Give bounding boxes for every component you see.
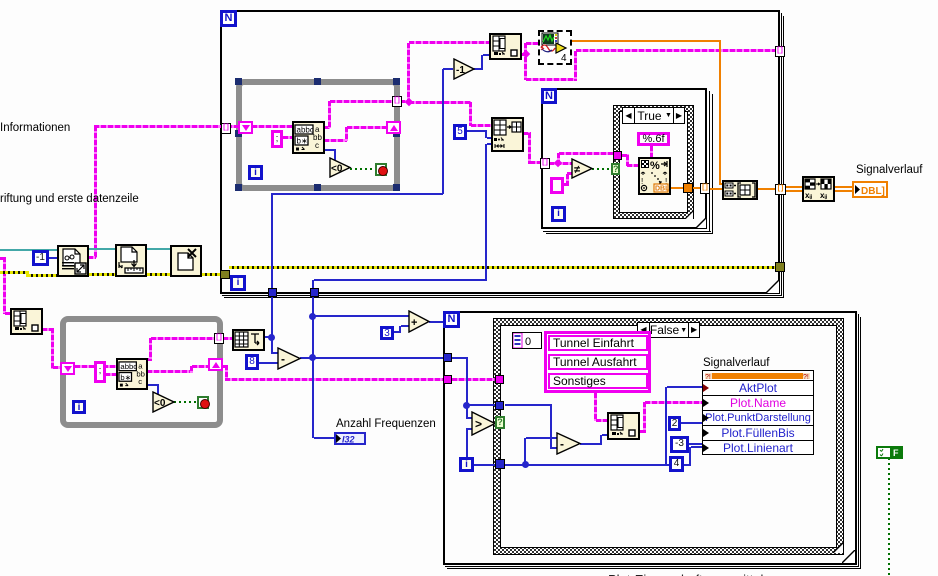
wire orange scan DBL out to tunnels xyxy=(670,187,683,189)
wire pink idx2 out up to property node Plot.Name xyxy=(639,430,646,433)
label Signalverlauf property node xyxy=(703,357,769,369)
wire green dotted neq to q xyxy=(592,168,612,170)
svg-text:<0: <0 xyxy=(331,164,343,175)
wire pink match1 a-out up to tunnel xyxy=(324,126,330,129)
wire pink match1 bb-out to SR1 up xyxy=(324,139,347,142)
wire blue match1 c-out to lt0 xyxy=(324,149,336,151)
svg-text:DBL]: DBL] xyxy=(861,186,885,196)
junction diamond pink xyxy=(405,98,413,106)
wire blue 4 to prop node xyxy=(683,464,691,466)
wire green dotted lt0#2 to stop2 xyxy=(174,401,197,403)
const 5 xyxy=(453,124,467,140)
tunnel blue main bottom 2 xyxy=(310,288,319,297)
icon index array bottom-left xyxy=(10,308,43,335)
wire error inside main loop xyxy=(229,266,775,269)
semicolon string const loop1 xyxy=(271,130,283,148)
svg-text:-: - xyxy=(281,352,285,366)
wire pink empty string const to neq xyxy=(563,183,569,186)
tunnel olive main loop right xyxy=(775,262,785,272)
for loop 3 (bottom) xyxy=(443,311,857,565)
wire pink case1 inside: magenta tunnel to scan xyxy=(622,154,629,157)
wire green dotted F const down xyxy=(888,458,890,576)
triangle minus 2 xyxy=(556,432,582,455)
tunnel [] main loop left xyxy=(221,123,231,134)
wire pink tunnel out, junction up to index icon and right to reshape xyxy=(400,100,410,103)
svg-text:+: + xyxy=(411,317,417,329)
case structure 2 (False) xyxy=(493,318,844,555)
triangle neq xyxy=(571,158,594,179)
wire pink from left edge down to index icon xyxy=(0,257,6,260)
wire blue long: array-size out, up through loop to -1 triangle xyxy=(264,336,272,338)
inner for loop (top) xyxy=(541,88,707,229)
wire pink reshape out down to inner loop tunnel xyxy=(523,132,531,135)
svg-text:4: 4 xyxy=(561,53,567,63)
triangle lt0 loop1 xyxy=(329,157,352,178)
icon file size xyxy=(115,244,147,277)
tunnel blue main bottom 1 xyxy=(268,288,277,297)
wire pink SR2 to match2 xyxy=(75,365,116,368)
i terminal loop3 xyxy=(459,457,474,472)
label clipped bottom xyxy=(608,571,808,576)
shift register up loop2 xyxy=(208,358,223,371)
tunnel olive main loop left xyxy=(220,270,230,279)
svg-text:%: % xyxy=(650,160,660,172)
tunnel [] inner loop left xyxy=(540,158,550,169)
const 8 xyxy=(245,354,259,370)
triangle gt loop3 xyxy=(471,411,497,436)
wire blue match2 c-out to lt0 #2 xyxy=(147,384,159,386)
label Anzahl Frequenzen xyxy=(336,418,436,430)
svg-text:-1: -1 xyxy=(456,65,465,76)
wire pink case2: array const to index icon xyxy=(594,393,597,421)
wire pink SR2up to loop3 tunnel (long dashed) xyxy=(222,365,228,368)
wire orange build array out xyxy=(757,188,775,190)
svg-text:xᵢⱼ: xᵢⱼ xyxy=(805,191,813,200)
q box case1 xyxy=(611,163,620,175)
tunnel magenta case1 left xyxy=(613,151,622,160)
svg-text:abbc: abbc xyxy=(120,362,137,371)
wire blue -1const to read icon xyxy=(49,257,57,259)
tunnel magenta loop3 left xyxy=(443,375,452,384)
tunnel [] while2 right xyxy=(214,333,224,344)
wire pink match2 bb-out to SR up xyxy=(147,370,192,373)
icon read spreadsheet file xyxy=(57,245,89,277)
const -1 xyxy=(32,250,49,266)
svg-text:-: - xyxy=(560,437,564,451)
wire blue case2 inside: tunnel to minus2 bottom xyxy=(505,404,552,406)
svg-text:<0: <0 xyxy=(154,398,166,409)
wire blue plus out to N3 xyxy=(429,321,443,323)
svg-text:>: > xyxy=(475,417,482,431)
semicolon string const loop2 xyxy=(94,361,106,383)
svg-text:≠: ≠ xyxy=(574,164,580,176)
icon array size T xyxy=(232,329,265,351)
wire orange double 2D to transpose xyxy=(785,186,802,188)
for-loop main frame xyxy=(220,10,780,294)
wire pink inside loop3 to case2 tunnel xyxy=(452,378,496,381)
tunnel blue loop3 left xyxy=(443,353,452,362)
N inner loop xyxy=(541,88,557,104)
stop sign loop1 xyxy=(375,163,387,176)
shift register down loop2 xyxy=(60,362,75,375)
wire blue loop3: tunnel to gt and case tunnel xyxy=(452,357,468,359)
svg-text:!: ! xyxy=(641,177,643,186)
const 2 xyxy=(668,416,681,431)
svg-text:b∗: b∗ xyxy=(297,137,308,146)
wire blue i4 row xyxy=(473,464,666,466)
I32 terminal xyxy=(334,432,366,445)
while loop 2 xyxy=(60,316,223,428)
tunnel magenta case2 left xyxy=(495,375,504,384)
svg-text:c: c xyxy=(138,377,142,386)
fmt string const xyxy=(637,132,670,146)
wire pink idxTop icon to chart icon and long run to right tunnel xyxy=(521,53,526,56)
wire pink match2 a-out to tunnel xyxy=(147,358,152,361)
svg-text:DBL: DBL xyxy=(655,186,669,193)
tunnel blue case2 left lower xyxy=(495,459,505,469)
N main loop xyxy=(220,10,237,27)
triangle -1 xyxy=(453,58,476,80)
icon waveform chart (dashed) xyxy=(538,30,572,65)
const -3 xyxy=(670,436,689,453)
N for loop 3 xyxy=(443,311,460,328)
wire pink inner loop tunnel to neq and magenta tunnel xyxy=(549,162,572,165)
tunnel blue case2 left upper xyxy=(495,401,504,410)
wire pink semicolon2 out xyxy=(105,373,116,376)
svg-text:xᵢⱼ: xᵢⱼ xyxy=(820,191,828,200)
wire pink fmt string down to scan xyxy=(650,146,653,157)
icon match pattern 1 xyxy=(292,121,325,154)
wire blue array-size down to minus xyxy=(271,340,273,353)
tunnel [] main loop right top xyxy=(775,46,785,57)
icon index array top xyxy=(489,33,522,60)
svg-text:I32: I32 xyxy=(342,435,355,444)
while loop 1 (selected, gray border with handles) xyxy=(236,79,400,191)
wire blue -3 to prop node xyxy=(688,443,703,445)
wire green dotted lt0 to stop1 xyxy=(350,168,375,170)
icon match pattern 2 xyxy=(116,358,148,390)
wire pink semicolon1 out xyxy=(283,136,292,139)
shift register up loop1 xyxy=(386,121,401,134)
triangle minus 1 xyxy=(277,347,302,370)
wire pink index icon to shift register loop2 xyxy=(42,328,54,331)
wire pink Informationen row into main loop and down to file icon xyxy=(94,125,238,128)
wire blue 2 to prop node xyxy=(680,422,702,424)
case structure 1 (True) xyxy=(613,105,694,219)
wire blue -1 triangle out to idxTop xyxy=(474,68,483,70)
svg-text:F: F xyxy=(893,448,899,457)
i terminal inner loop xyxy=(551,206,566,222)
case 2 selector label xyxy=(637,322,700,338)
string array const Tunnel xyxy=(544,331,651,393)
wire blue minus2 out to idx2 xyxy=(580,443,602,445)
tunnel [] main loop right orange xyxy=(775,184,786,195)
tunnel [] while1 top right xyxy=(392,96,402,107)
icon index array case2 xyxy=(607,412,640,440)
DBL indicator xyxy=(852,181,888,198)
i terminal loop1 xyxy=(248,165,263,180)
i terminal loop2 xyxy=(72,400,86,414)
icon reshape array xyxy=(491,117,524,152)
label Informationen xyxy=(0,122,70,134)
i terminal main loop xyxy=(230,275,246,291)
wire blue 8 to minus xyxy=(258,362,278,364)
ring const 0 xyxy=(512,332,542,349)
svg-text:b∗: b∗ xyxy=(120,373,131,382)
label Signalverlauf right xyxy=(856,164,922,176)
tunnel [] inner loop right orange xyxy=(700,183,710,194)
wire pink tunnel loop2 to array icon xyxy=(223,337,232,340)
wire blue 3 to plus xyxy=(393,331,401,333)
wire pink SR1 to match1 xyxy=(252,125,292,128)
triangle plus xyxy=(408,310,431,333)
wire teal refnum chain xyxy=(0,249,57,251)
wire blue 5 to reshape xyxy=(465,130,487,132)
empty string const case1 area xyxy=(550,177,564,194)
F boolean const xyxy=(876,446,903,459)
tunnel orange case1 right xyxy=(683,183,693,193)
svg-text:0: 0 xyxy=(525,336,531,348)
wire orange chart out long right and down to build array xyxy=(571,40,721,42)
shift register down loop1 xyxy=(238,121,253,134)
triangle lt0 loop2 xyxy=(152,391,176,413)
icon scan from string xyxy=(638,157,671,195)
const 3 xyxy=(380,326,394,340)
const 4 xyxy=(669,456,684,472)
property node Signalverlauf xyxy=(702,370,814,455)
icon build array xyxy=(722,180,758,200)
stop sign loop2 xyxy=(197,396,209,409)
svg-text:c: c xyxy=(315,141,319,150)
icon transpose 2d array xyxy=(802,176,835,202)
q box case2 xyxy=(495,416,505,429)
wire blue minus out: junction column xyxy=(300,357,313,359)
icon close file xyxy=(170,245,202,277)
selection handles xyxy=(235,78,242,85)
fold corner main loop xyxy=(766,280,779,293)
case 1 selector label xyxy=(622,107,685,124)
svg-text:abbc: abbc xyxy=(297,126,314,135)
label Beschriftung (clipped) xyxy=(0,193,139,205)
wire error yellow-black left of main loop xyxy=(0,271,28,274)
